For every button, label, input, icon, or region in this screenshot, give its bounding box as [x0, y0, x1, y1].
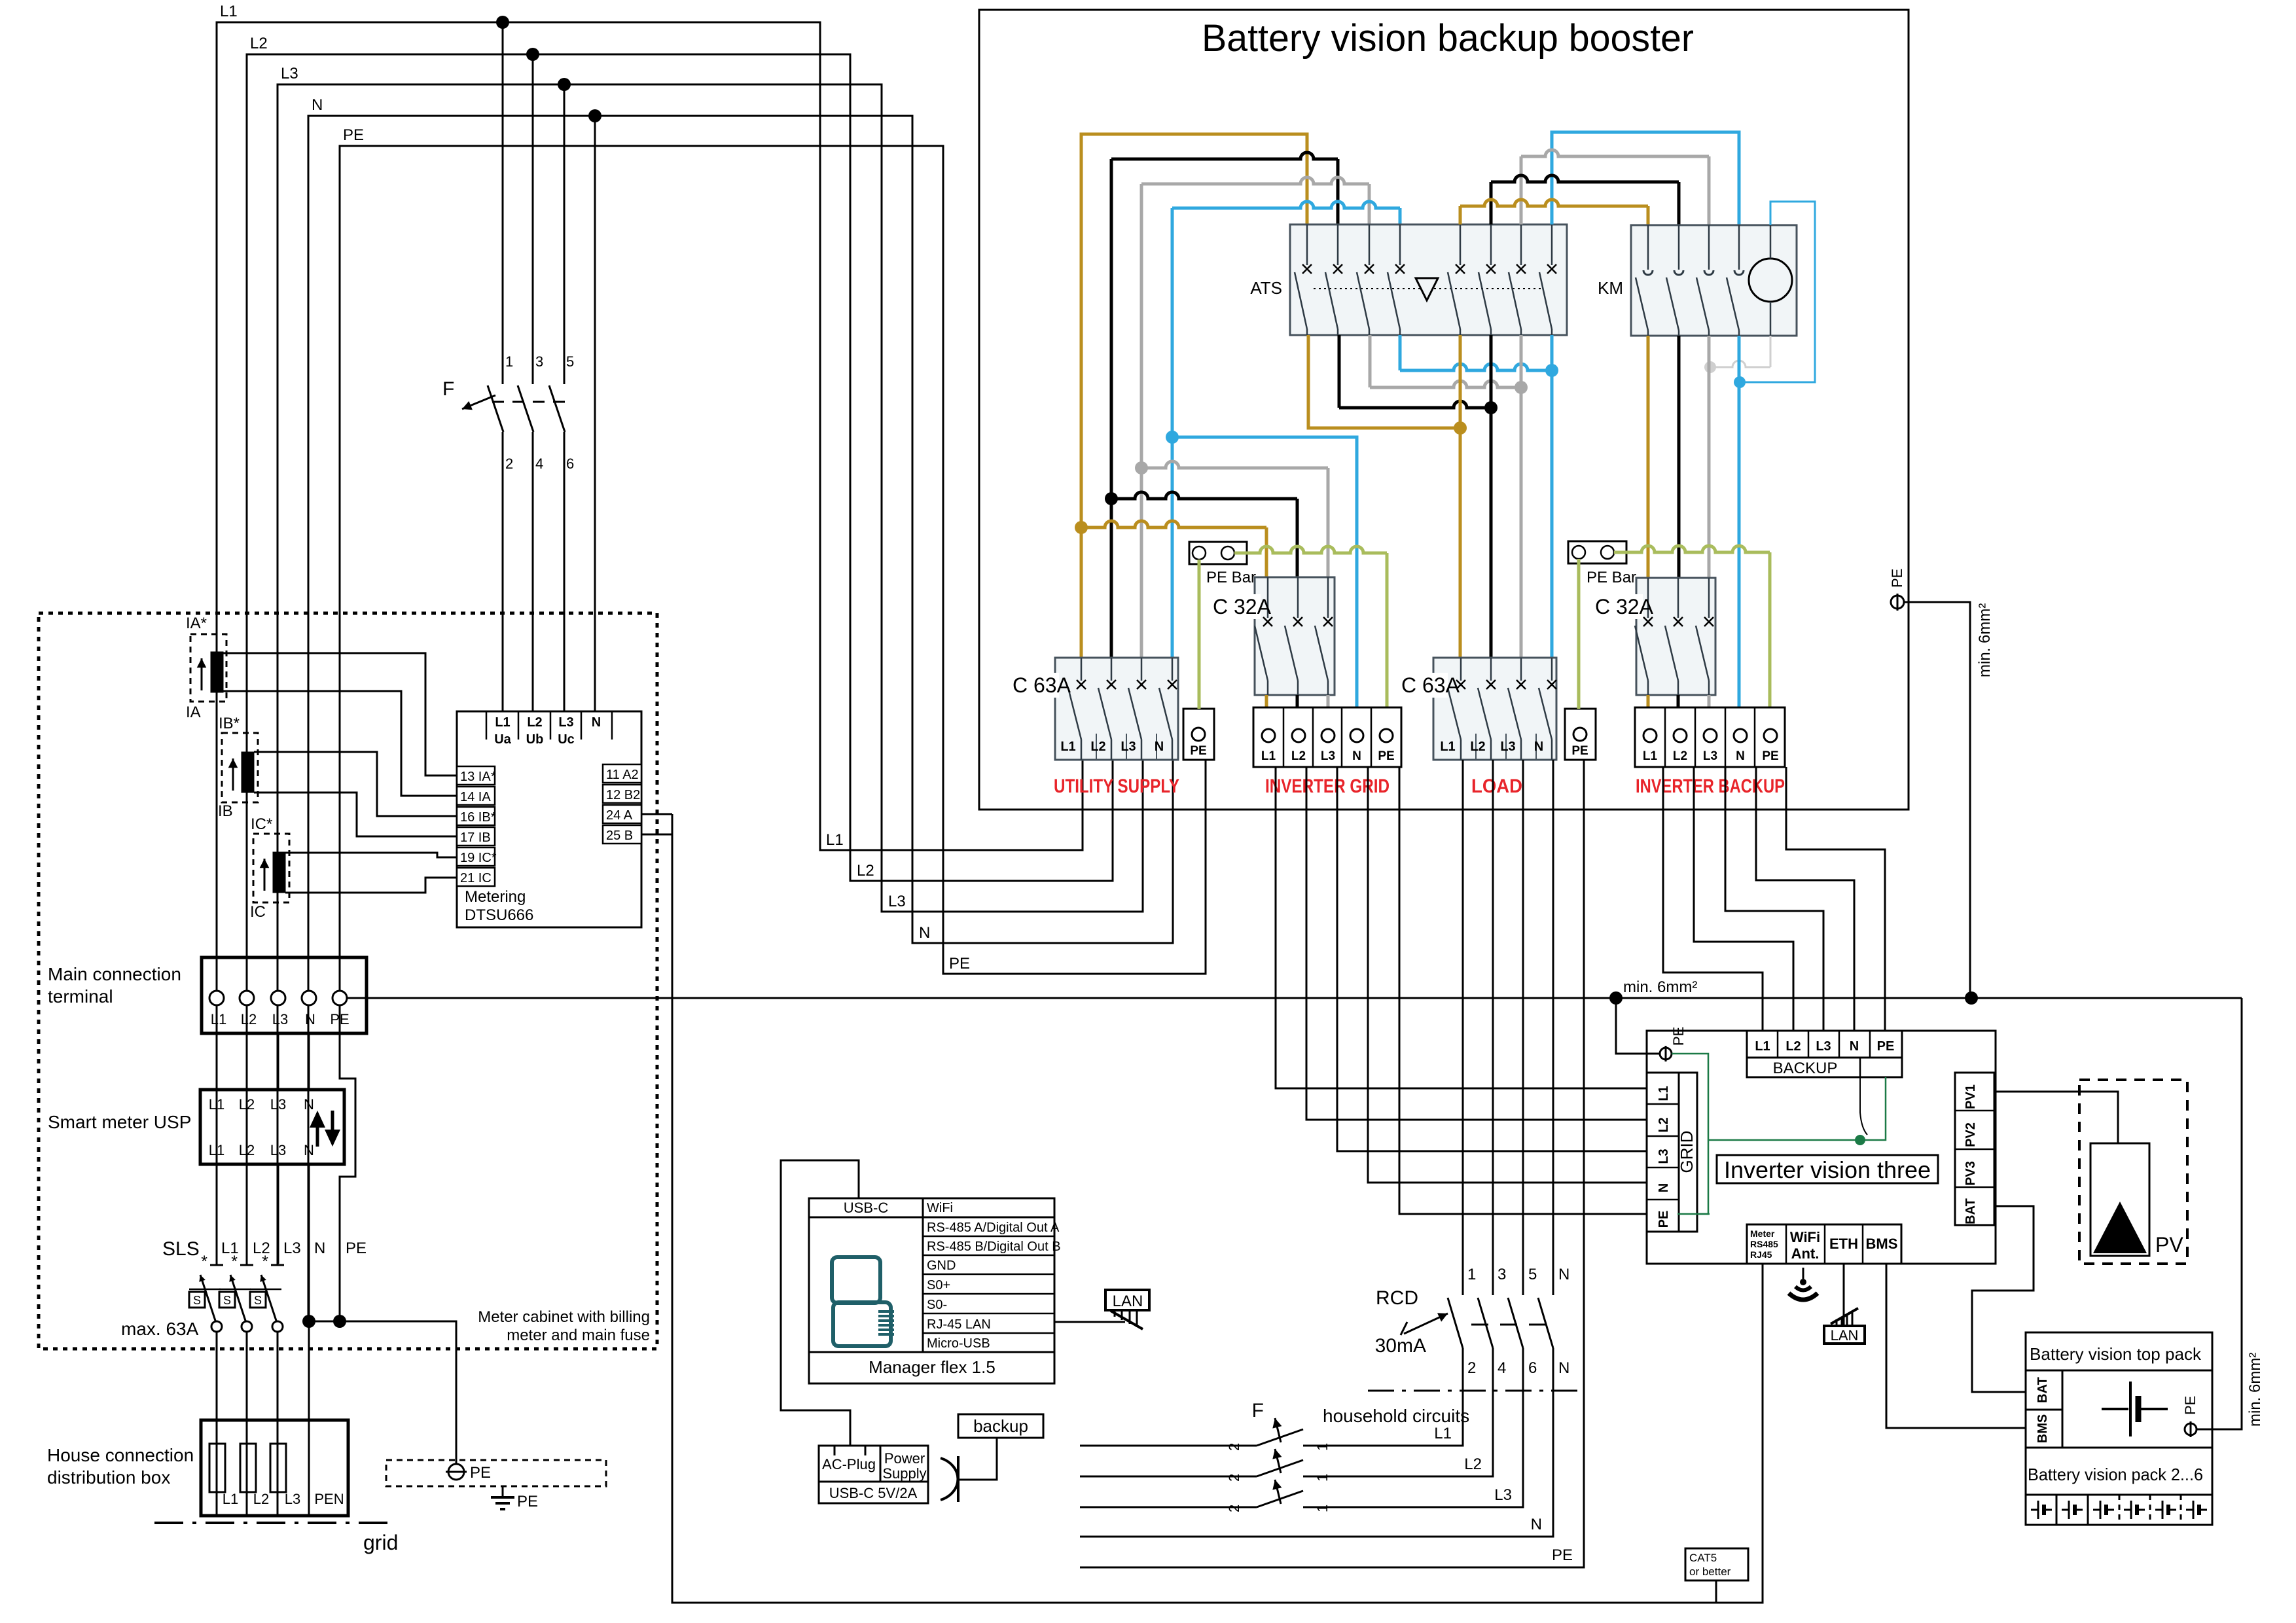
svg-text:L3: L3: [281, 65, 298, 82]
wifi antenna icon: [1803, 1268, 1804, 1279]
svg-text:L2: L2: [239, 1142, 255, 1158]
junction dot ochre load bus: [1454, 421, 1467, 435]
wire blue KM coil loop: [1742, 202, 1815, 382]
wire light gray coil return: [1770, 336, 1772, 367]
fuse F trip arrow: [462, 395, 495, 409]
wire L2 top bus: [247, 54, 1113, 1265]
svg-text:PE: PE: [1762, 749, 1778, 763]
svg-text:PE: PE: [1670, 1027, 1687, 1046]
wire black ATS output bus: [1338, 335, 1341, 408]
Battery vision backup booster enclosure: [979, 10, 1909, 810]
svg-text:L1: L1: [1657, 1086, 1671, 1101]
svg-text:IB: IB: [218, 802, 233, 820]
wire IB* to terminal 16: [254, 752, 457, 816]
wire gray utility bus to C32A: [1141, 461, 1328, 468]
svg-text:1: 1: [1467, 1266, 1476, 1283]
junction dot N-PE bond: [302, 1315, 315, 1328]
svg-text:Battery vision backup booster: Battery vision backup booster: [1202, 17, 1694, 60]
circuit breaker C32A inverter grid: [1255, 577, 1335, 695]
ATS left pole 2: [1337, 224, 1339, 265]
wire BMS to battery: [1886, 1264, 2026, 1428]
wire ochre L1 feeder to ATS: [1081, 134, 1307, 658]
svg-text:2: 2: [1226, 1505, 1242, 1512]
meter cabinet dashed enclosure: [39, 613, 657, 1349]
battery cell symbol: [2093, 1509, 2100, 1511]
svg-text:Micro-USB: Micro-USB: [927, 1336, 990, 1351]
svg-text:L1: L1: [1643, 749, 1658, 763]
svg-text:L2: L2: [1785, 1039, 1801, 1054]
wire black utility bus to C32A: [1111, 492, 1297, 499]
svg-text:12 B2: 12 B2: [606, 788, 640, 802]
svg-text:PE: PE: [346, 1240, 367, 1257]
wire PEN bond to earth electrode: [309, 1321, 456, 1464]
KM pole 1: [1647, 225, 1649, 270]
circuit breaker C63A load: [1433, 658, 1556, 760]
svg-text:L3: L3: [270, 1142, 286, 1158]
ATS right pole 4: [1551, 224, 1553, 265]
svg-text:L2: L2: [527, 715, 542, 730]
svg-text:PE: PE: [949, 955, 970, 972]
label C 63A utility: [1011, 673, 1059, 698]
svg-text:L2: L2: [1657, 1117, 1671, 1132]
svg-text:Ub: Ub: [526, 732, 544, 747]
junction dot enclosure PE on bus: [1965, 991, 1978, 1005]
wire IC* to terminal 19: [285, 853, 457, 857]
svg-text:min. 6mm²: min. 6mm²: [1623, 978, 1697, 996]
junction dot L3 to fuse F: [558, 78, 571, 91]
wire CAT5 stub: [1715, 1580, 1717, 1603]
svg-text:17 IB: 17 IB: [460, 830, 491, 845]
svg-text:L1: L1: [223, 1491, 238, 1507]
svg-text:S: S: [254, 1294, 262, 1307]
svg-text:backup: backup: [973, 1416, 1028, 1436]
junction dot gray load bus: [1515, 381, 1528, 394]
svg-text:L2: L2: [1464, 1455, 1482, 1473]
battery pack cells: [2026, 1495, 2212, 1525]
svg-text:BMS: BMS: [1866, 1236, 1898, 1252]
fuse F pole 3 blade: [518, 385, 533, 432]
svg-text:L3: L3: [285, 1491, 300, 1507]
svg-text:L2: L2: [239, 1096, 255, 1113]
svg-text:BAT: BAT: [2036, 1377, 2050, 1403]
terminal PE utility: [1183, 709, 1214, 760]
svg-text:WiFi: WiFi: [1790, 1229, 1820, 1245]
svg-text:terminal: terminal: [48, 986, 113, 1007]
current transformer IA bar: [211, 652, 223, 692]
metering CT terminals 13-21: [457, 766, 495, 785]
house connection distribution box: [201, 1420, 348, 1516]
svg-text:N: N: [1558, 1359, 1570, 1377]
svg-text:2: 2: [1226, 1474, 1242, 1482]
label C 32A backup: [1593, 594, 1643, 619]
svg-text:Uc: Uc: [558, 732, 575, 747]
PE earth circle symbol: [448, 1464, 464, 1480]
svg-text:RS-485 A/Digital Out A: RS-485 A/Digital Out A: [927, 1221, 1060, 1235]
wire L1 top bus: [217, 22, 1083, 1265]
wire gray L3 feeder to ATS: [1141, 177, 1369, 184]
svg-text:N: N: [1534, 740, 1543, 754]
wire gray to LOAD breaker: [1520, 335, 1523, 658]
svg-text:L3: L3: [270, 1096, 286, 1113]
svg-text:24 A: 24 A: [606, 808, 633, 823]
svg-text:L3: L3: [1703, 749, 1717, 763]
wire IA* to terminal 13: [223, 653, 457, 776]
RCD pole 4 blade: [1538, 1298, 1553, 1348]
main terminal contacts: [209, 991, 224, 1005]
svg-text:IB*: IB*: [219, 715, 240, 732]
wire blue to LOAD breaker: [1551, 335, 1554, 658]
circuit breaker C63A utility supply: [1055, 658, 1178, 760]
wire ochre KM to C32A backup: [1647, 336, 1650, 578]
svg-text:C 32A: C 32A: [1595, 595, 1654, 618]
svg-text:L1: L1: [826, 831, 844, 849]
svg-text:LAN: LAN: [1831, 1327, 1859, 1344]
svg-text:RJ-45 LAN: RJ-45 LAN: [927, 1317, 991, 1332]
wire PE bus main terminal to right side: [347, 997, 2242, 999]
svg-text:Inverter vision three: Inverter vision three: [1724, 1156, 1931, 1183]
battery cell symbol: [2186, 1509, 2193, 1511]
svg-text:SLS: SLS: [162, 1238, 200, 1260]
svg-text:Main connection: Main connection: [48, 964, 181, 984]
svg-text:Supply: Supply: [882, 1465, 926, 1482]
junction dot L2 to fuse F: [526, 48, 539, 61]
junction dot ochre utility bus: [1075, 521, 1088, 534]
svg-text:PV3: PV3: [1964, 1161, 1978, 1186]
terminal PE load: [1565, 709, 1596, 760]
svg-text:L1: L1: [495, 715, 510, 730]
junction dot blue coil to N: [1734, 376, 1746, 388]
current transformer IB bar: [242, 752, 254, 793]
svg-text:1: 1: [505, 353, 513, 370]
svg-text:PEN: PEN: [314, 1491, 344, 1507]
ATS contactor box: [1290, 224, 1567, 335]
wires main terminal to smart meter: [216, 1033, 218, 1090]
svg-text:max. 63A: max. 63A: [121, 1319, 199, 1339]
wire L2 tap to fuse F pole 3: [532, 54, 534, 384]
current transformer IA arrow: [201, 658, 203, 690]
current transformer IC dashed box: [253, 834, 289, 902]
svg-text:N: N: [1531, 1516, 1542, 1533]
wire RS-485 cable to inverter meter port: [672, 814, 1763, 1603]
terminal block INVERTER BACKUP: [1635, 707, 1785, 767]
svg-text:distribution box: distribution box: [47, 1467, 170, 1488]
battery PE circle: [2185, 1423, 2197, 1435]
wire gray C32A to backup L3: [1708, 695, 1711, 707]
svg-text:L1: L1: [1434, 1425, 1452, 1442]
house PEN wire: [308, 1420, 310, 1516]
svg-text:L3: L3: [1500, 740, 1515, 754]
wire blue KM to backup N terminal: [1738, 336, 1741, 707]
LAN box ETH: [1824, 1326, 1865, 1344]
wire black C32A to grid L2 terminal: [1296, 695, 1299, 707]
svg-text:16 IB*: 16 IB*: [460, 810, 496, 825]
svg-text:N: N: [1155, 740, 1164, 754]
wire gray KM to C32A backup: [1708, 336, 1711, 578]
svg-text:N: N: [305, 1011, 315, 1027]
wire PE top bus: [340, 146, 1206, 1033]
metering comm terminals 11-25: [603, 764, 641, 783]
svg-text:N: N: [1657, 1183, 1671, 1192]
svg-text:PE: PE: [1889, 569, 1905, 588]
battery vision top pack box: [2026, 1332, 2212, 1448]
wire green PE bar to utility PE terminal: [1198, 560, 1201, 709]
svg-text:4: 4: [535, 455, 543, 472]
wire green PE bar to load PE terminal: [1577, 559, 1581, 709]
wire ochre C32A to backup L1: [1647, 695, 1650, 707]
wire RS-485 B from 25B: [641, 834, 672, 836]
svg-text:AC-Plug: AC-Plug: [822, 1456, 876, 1472]
svg-text:*: *: [201, 1253, 207, 1271]
battery cell symbol: [2155, 1509, 2162, 1511]
wire manager usb-c to power supply: [781, 1160, 859, 1446]
wire gray C32A to grid L3 terminal: [1327, 695, 1330, 707]
PE earth dashed box: [386, 1460, 606, 1486]
SLS pole L1: [210, 1264, 223, 1266]
svg-text:25 B: 25 B: [606, 829, 633, 843]
svg-text:C 63A: C 63A: [1013, 673, 1071, 697]
terminal block INVERTER GRID: [1253, 707, 1401, 767]
svg-text:L1: L1: [211, 1011, 226, 1027]
wire green PE bar to inverter grid PE: [1234, 546, 1387, 553]
RCD linkage dashes: [1471, 1324, 1554, 1326]
svg-text:PE: PE: [1571, 744, 1588, 758]
current transformer IC bar: [273, 852, 285, 893]
wire F pole1 to metering L1: [502, 432, 504, 711]
svg-text:L2: L2: [1291, 749, 1306, 763]
ATS right pole 2: [1490, 224, 1492, 265]
RCD pole 3 blade: [1508, 1298, 1523, 1348]
svg-text:grid: grid: [363, 1531, 398, 1554]
svg-text:L3: L3: [283, 1240, 301, 1257]
junction dot black utility bus: [1105, 492, 1118, 505]
wires smart meter to SLS: [216, 1164, 218, 1264]
wire L3 tap to fuse F pole 5: [564, 84, 565, 384]
svg-text:Metering: Metering: [465, 888, 526, 906]
label Inverter vision three: [1717, 1155, 1938, 1183]
ATS left pole 4: [1399, 224, 1401, 265]
wire blue N feeder to ATS: [1172, 202, 1400, 208]
svg-text:L2: L2: [1470, 740, 1485, 754]
SLS pole L2: [240, 1264, 253, 1266]
svg-text:Meter: Meter: [1750, 1228, 1775, 1239]
junction dot coil return to gray: [1704, 361, 1716, 373]
svg-text:N: N: [314, 1240, 325, 1257]
household fuse pole L2: [1080, 1476, 1257, 1478]
manager right port cells: [923, 1217, 1054, 1219]
manager device icon: [832, 1257, 880, 1303]
wire IB to terminal 17: [254, 793, 457, 836]
wire green bonding bus: [1708, 1077, 1886, 1140]
metering voltage cell dividers: [486, 711, 488, 740]
svg-text:N: N: [312, 96, 323, 114]
svg-text:LAN: LAN: [1113, 1293, 1143, 1310]
wires SLS to house connection box: [216, 1332, 218, 1420]
ATS linkage dotted line: [1314, 288, 1543, 289]
svg-text:PE: PE: [1552, 1546, 1573, 1564]
wire PE bypass around smart meter: [340, 1033, 355, 1321]
RCD pole 1 blade: [1448, 1298, 1463, 1348]
wire L1 tap to fuse F pole 1: [502, 22, 504, 384]
svg-text:BAT: BAT: [1964, 1198, 1978, 1224]
svg-text:13 IA*: 13 IA*: [460, 770, 496, 784]
RCD test arrow: [1404, 1313, 1448, 1334]
svg-text:21 IC: 21 IC: [460, 871, 492, 885]
KM contactor box: [1631, 225, 1797, 336]
svg-text:GRID: GRID: [1677, 1131, 1696, 1173]
svg-text:PE: PE: [470, 1464, 491, 1482]
svg-text:ATS: ATS: [1250, 278, 1282, 298]
wire green PE bar to backup PE terminal: [1614, 546, 1770, 552]
svg-text:L2: L2: [241, 1011, 257, 1027]
battery BMS cell: [2026, 1410, 2062, 1448]
PE pick-up circle on enclosure: [1891, 596, 1904, 609]
LAN box manager: [1105, 1290, 1149, 1310]
svg-text:Manager flex 1.5: Manager flex 1.5: [869, 1357, 996, 1377]
svg-text:3: 3: [535, 353, 543, 370]
PV and BAT terminal cells: [1955, 1073, 1994, 1225]
wire black KM to C32A backup: [1677, 336, 1681, 578]
ATS right pole 1: [1460, 224, 1462, 265]
wire black L2 feeder to ATS: [1111, 152, 1338, 159]
CAT5 label box: [1685, 1548, 1748, 1580]
svg-text:L3: L3: [558, 715, 573, 730]
ATS left pole 3: [1369, 224, 1371, 265]
svg-text:or better: or better: [1689, 1565, 1731, 1578]
svg-text:RS-485 B/Digital Out B: RS-485 B/Digital Out B: [927, 1240, 1061, 1254]
PE bar backup: [1568, 541, 1626, 563]
svg-text:PE: PE: [1657, 1211, 1671, 1228]
bottom port cells: [1747, 1224, 1901, 1264]
wire PV1 to panel: [1994, 1092, 2118, 1147]
battery symbol: [2102, 1408, 2128, 1410]
svg-text:L1: L1: [1440, 740, 1455, 754]
svg-text:L2: L2: [250, 35, 268, 52]
wire PE bus drop to inverter PE: [1616, 998, 1660, 1054]
svg-text:PE Bar: PE Bar: [1587, 569, 1636, 586]
wire N top bus: [308, 116, 1173, 1321]
svg-text:RS485: RS485: [1750, 1239, 1778, 1249]
svg-text:PV2: PV2: [1964, 1122, 1978, 1147]
svg-text:IC*: IC*: [251, 815, 272, 833]
current transformer IC arrow: [264, 859, 266, 891]
wire PE bus to battery pack: [2197, 998, 2242, 1429]
svg-text:6: 6: [566, 455, 574, 472]
junction dot green bonding: [1855, 1135, 1865, 1145]
current transformer IB dashed box: [222, 733, 258, 802]
svg-text:N: N: [1736, 749, 1745, 763]
BACKUP band: [1747, 1058, 1902, 1077]
junction dot L1 to fuse F: [496, 16, 509, 29]
svg-text:5: 5: [1528, 1266, 1537, 1283]
svg-text:Ua: Ua: [494, 732, 511, 747]
GRID band: [1679, 1073, 1697, 1232]
wire green grid PE entry: [1677, 1213, 1710, 1215]
wire gray ATS output bus: [1369, 335, 1372, 387]
svg-text:L3: L3: [1657, 1149, 1671, 1164]
battery cell symbol: [2124, 1509, 2131, 1511]
svg-text:*: *: [262, 1253, 268, 1271]
svg-text:min. 6mm²: min. 6mm²: [1976, 603, 1994, 677]
wire ochre ATS to KM pole1: [1460, 200, 1648, 206]
svg-text:30mA: 30mA: [1375, 1335, 1426, 1357]
svg-text:5: 5: [566, 353, 574, 370]
svg-text:PE: PE: [1877, 1039, 1895, 1054]
wires inverter grid to inverter GRID port: [1276, 767, 1648, 1088]
KM coil: [1749, 259, 1792, 302]
svg-text:2: 2: [505, 455, 513, 472]
junction dot blue load bus: [1545, 364, 1558, 377]
wire RS-485 A from 24A: [641, 813, 672, 815]
svg-text:L1: L1: [209, 1096, 224, 1113]
svg-text:S0-: S0-: [927, 1298, 947, 1312]
network icon ETH: [1836, 1319, 1838, 1326]
wire blue utility bus to inverter grid N: [1172, 437, 1357, 707]
svg-text:PE: PE: [1378, 749, 1394, 763]
svg-text:L2: L2: [1673, 749, 1687, 763]
svg-text:min. 6mm²: min. 6mm²: [2246, 1353, 2264, 1427]
house fuse L3: [270, 1444, 286, 1492]
household boundary dash-dot: [1368, 1390, 1585, 1392]
svg-text:DTSU666: DTSU666: [465, 906, 533, 924]
svg-text:L2: L2: [253, 1491, 269, 1507]
svg-text:RCD: RCD: [1376, 1287, 1418, 1309]
wire load PE down to household PE: [1080, 760, 1584, 1567]
svg-text:IA: IA: [186, 704, 201, 721]
svg-text:Smart meter USP: Smart meter USP: [48, 1112, 191, 1132]
current transformer IA dashed box: [190, 634, 226, 702]
bonding relay switch: [1860, 1077, 1867, 1135]
wire green inverter PE loop: [1672, 1054, 1708, 1214]
battery BAT cell: [2026, 1370, 2062, 1410]
wire blue ATS to KM pole4: [1552, 132, 1739, 225]
wires RCD to household circuits: [1303, 1358, 1463, 1446]
svg-text:Power: Power: [884, 1450, 925, 1467]
smart meter down arrow: [325, 1130, 340, 1147]
wire ochre utility bus to C32A: [1081, 521, 1266, 527]
KM pole 2: [1678, 225, 1680, 270]
wire N smart meter down: [308, 1164, 310, 1321]
AC plug power supply box: [819, 1446, 928, 1503]
svg-text:L3: L3: [1816, 1039, 1831, 1054]
BACKUP terminal block inverter: [1747, 1031, 1902, 1058]
wire black to LOAD breaker: [1490, 335, 1493, 658]
svg-text:2: 2: [1226, 1443, 1242, 1451]
wire ochre ATS output bus: [1308, 335, 1460, 428]
svg-text:N: N: [304, 1142, 314, 1158]
circuit breaker C32A backup: [1636, 578, 1715, 695]
svg-text:L3: L3: [1121, 740, 1136, 754]
svg-text:4: 4: [1498, 1359, 1506, 1377]
svg-text:1: 1: [1314, 1443, 1331, 1451]
SLS pole L3: [271, 1264, 284, 1266]
junction dot black load bus: [1484, 401, 1498, 414]
wires load breaker to RCD: [1462, 760, 1464, 1295]
svg-text:WiFi: WiFi: [927, 1201, 953, 1215]
svg-text:PV: PV: [2155, 1233, 2183, 1257]
backup box: [958, 1414, 1043, 1438]
junction dot blue utility bus: [1166, 431, 1179, 444]
svg-text:Meter cabinet with billing: Meter cabinet with billing: [478, 1308, 650, 1326]
wire N to house connection box: [308, 1321, 310, 1420]
fuse F pole 1 blade: [488, 385, 503, 432]
svg-text:GND: GND: [927, 1258, 956, 1273]
wires backup terminals to inverter BACKUP port: [1663, 767, 1763, 1031]
PV dashed box: [2079, 1080, 2187, 1264]
battery cell symbol: [2031, 1509, 2038, 1511]
svg-text:19 IC*: 19 IC*: [460, 851, 497, 865]
svg-text:F: F: [1252, 1400, 1264, 1421]
wire black ATS to KM pole2: [1491, 175, 1679, 182]
